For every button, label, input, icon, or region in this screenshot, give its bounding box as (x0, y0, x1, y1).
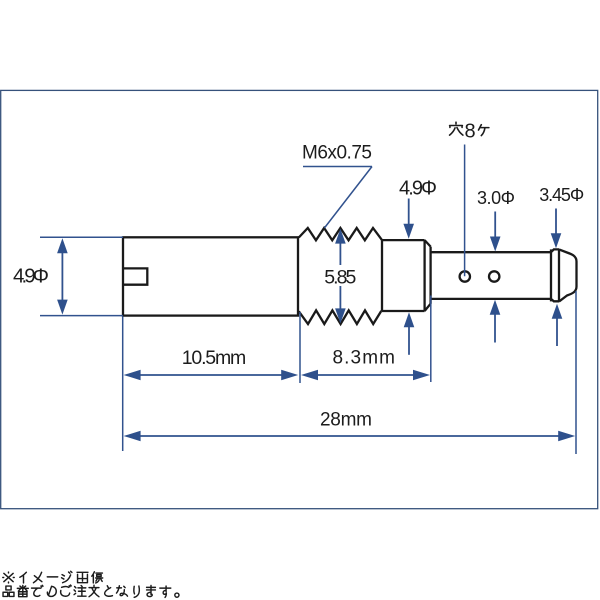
kanji ban (17, 586, 28, 597)
svg-text:M6x0.75: M6x0.75 (302, 143, 372, 164)
kanji ana (hole) (450, 122, 463, 135)
svg-text:10.5mm: 10.5mm (182, 347, 247, 369)
extension line vertical at x=300 (299, 312, 301, 383)
extension line bottom left (40, 315, 123, 317)
svg-text:8.3mm: 8.3mm (332, 348, 395, 369)
DIMENSION 5.85 thread (339, 238, 341, 314)
hiragana ma (147, 586, 156, 597)
28mm dimension line (130, 435, 569, 437)
svg-text:3.45Φ: 3.45Φ (539, 185, 584, 205)
thread top zigzag (299, 228, 382, 240)
hiragana go (61, 585, 72, 596)
extension line top left (40, 236, 123, 238)
small katakana ke (479, 125, 489, 136)
svg-text:4.9Φ: 4.9Φ (399, 178, 437, 200)
hiragana su (160, 586, 171, 597)
kanji zou (image) (92, 572, 103, 583)
katakana me (33, 572, 41, 582)
leader line to hole (464, 145, 466, 277)
down arrow to collar top (408, 199, 410, 225)
svg-text:28mm: 28mm (320, 409, 372, 430)
10.5mm dimension line (130, 374, 291, 376)
kuten period (175, 593, 179, 597)
extension line vertical at x=430.8 (430, 296, 432, 383)
hiragana na (117, 586, 128, 596)
8.3mm dimension line (307, 374, 424, 376)
tip cap lines (551, 249, 559, 302)
kome mark (3, 572, 14, 583)
down arrow to tip top (555, 209, 557, 235)
hiragana no (47, 586, 56, 596)
shaft (431, 252, 551, 299)
down arrow to shaft top (494, 212, 496, 238)
up arrow to collar bottom (408, 327, 410, 355)
up arrow to shaft bottom (494, 315, 496, 343)
FOOTNOTE line 2: order note (3, 585, 179, 597)
katakana ji (62, 571, 72, 582)
tip dome (559, 249, 577, 301)
hiragana ri (134, 586, 139, 597)
FOOTNOTE line 1: image caption (3, 571, 103, 583)
hiragana de (32, 585, 43, 596)
frame border (1, 90, 598, 508)
collar section (382, 240, 431, 311)
vertical dimension line 4.9 (61, 248, 63, 305)
kanji bun (89, 585, 99, 596)
white backing for 5.85 label (322, 265, 359, 286)
hiragana to (105, 586, 113, 596)
hole 2 (489, 271, 499, 281)
chouon bar (47, 576, 57, 578)
LABEL hole 8x (ana 8 ke) (450, 121, 489, 277)
svg-text:5.85: 5.85 (324, 267, 356, 289)
up arrow to tip bottom (556, 319, 558, 347)
head rectangle (123, 237, 298, 315)
svg-text:4.9Φ: 4.9Φ (13, 265, 49, 288)
hole 1 (460, 271, 470, 281)
katakana i (20, 572, 26, 583)
svg-text:8: 8 (465, 121, 476, 143)
thread bottom zigzag (299, 310, 382, 324)
svg-text:3.0Φ: 3.0Φ (477, 188, 515, 208)
extension line vertical at x=576 (575, 291, 577, 454)
kanji chuu (74, 586, 86, 597)
kanji hin (3, 586, 14, 596)
screw slot notch (123, 268, 147, 284)
kanji ga (picture) (77, 572, 88, 582)
extension line vertical at x=122.7 (122, 317, 124, 452)
